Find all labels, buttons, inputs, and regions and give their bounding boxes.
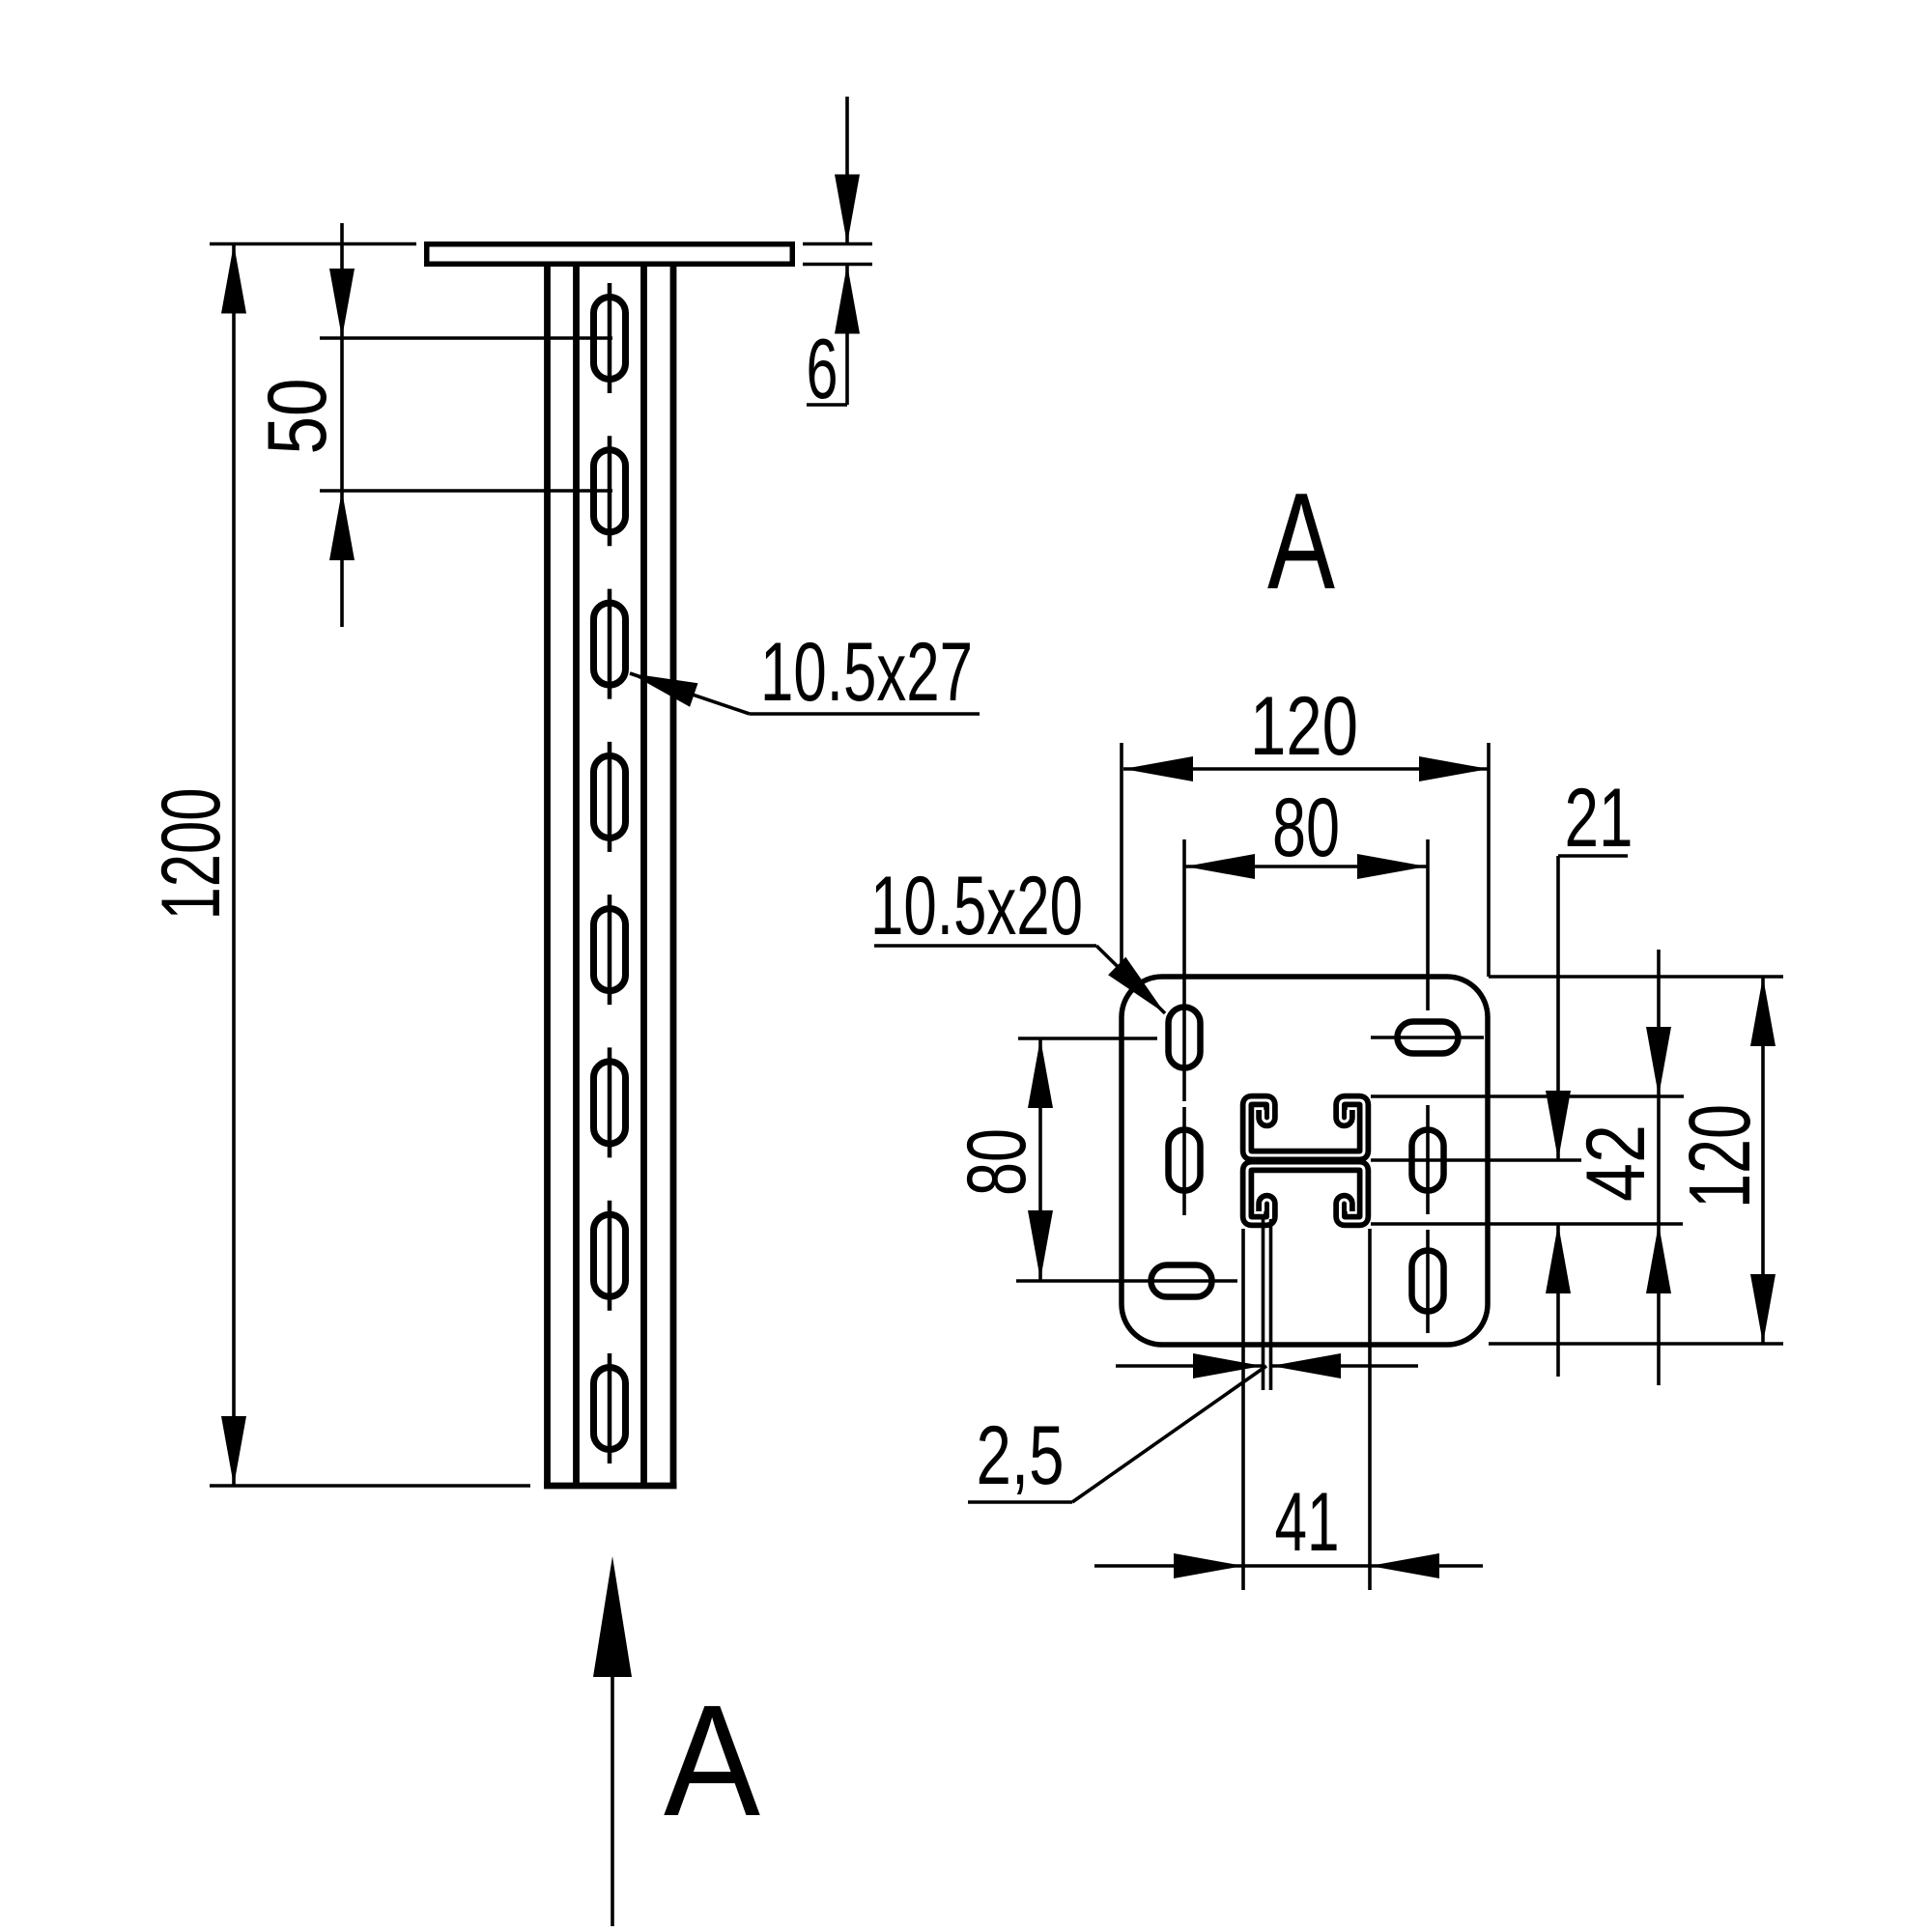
svg-text:A: A <box>664 1672 761 1849</box>
svg-text:80: 80 <box>951 1128 1043 1196</box>
svg-text:41: 41 <box>1275 1476 1340 1569</box>
svg-text:10.5x27: 10.5x27 <box>760 626 973 719</box>
svg-text:A: A <box>1267 465 1335 618</box>
svg-text:21: 21 <box>1565 772 1634 865</box>
svg-text:42: 42 <box>1570 1124 1662 1202</box>
svg-text:120: 120 <box>1672 1104 1769 1208</box>
svg-text:1200: 1200 <box>145 788 238 921</box>
svg-text:10.5x20: 10.5x20 <box>870 860 1083 952</box>
svg-text:50: 50 <box>251 379 344 455</box>
svg-text:2,5: 2,5 <box>977 1409 1065 1502</box>
svg-text:6: 6 <box>807 321 838 416</box>
svg-text:80: 80 <box>1272 781 1340 874</box>
svg-text:120: 120 <box>1250 680 1358 773</box>
